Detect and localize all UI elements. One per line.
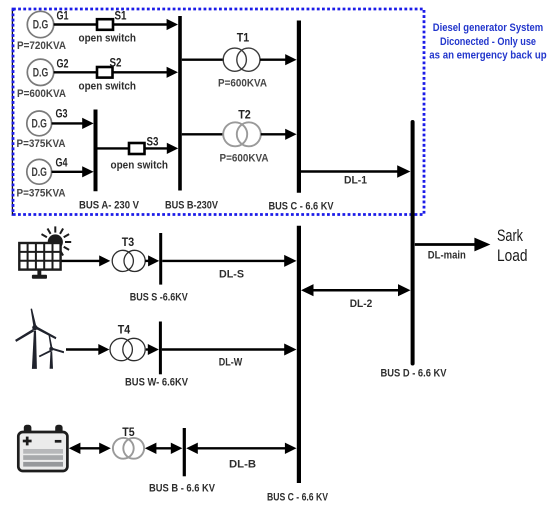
svg-text:D.G: D.G (31, 167, 47, 179)
svg-text:S1: S1 (115, 11, 128, 23)
transformer T1 (223, 48, 246, 71)
svg-text:D.G: D.G (31, 119, 47, 131)
arrowhead DL-main (474, 238, 490, 252)
svg-text:Sark: Sark (497, 226, 523, 245)
svg-text:DL-B: DL-B (229, 459, 256, 471)
arrowhead toward T5 (145, 443, 157, 454)
svg-text:BUS B-230V: BUS B-230V (165, 200, 219, 212)
arrowhead DL-B left (186, 443, 198, 454)
svg-text:P=600KVA: P=600KVA (218, 78, 267, 90)
svg-text:DL-2: DL-2 (350, 298, 373, 310)
bus BUS B (6.6 KV) (183, 428, 186, 476)
wire T1 to BUS C (260, 59, 286, 61)
svg-text:G2: G2 (57, 58, 69, 70)
left black border of diesel enclosure (11, 9, 13, 215)
transformer T2 (223, 122, 247, 146)
battery storage icon (18, 425, 67, 471)
wire S1 to BUS B (113, 23, 168, 25)
arrowhead into BUS C (DL-W) (284, 344, 296, 356)
arrowhead into T4 (98, 344, 109, 355)
arrowhead into BUS A (G3 feed) (82, 118, 93, 129)
generator G1 (27, 11, 53, 37)
arrowhead into BUS W (148, 344, 159, 355)
arrowhead toward T5 (99, 443, 111, 454)
transformer T3 (112, 250, 133, 271)
generator G4 (27, 159, 52, 184)
bus BUS A (94, 110, 98, 192)
generator G3 (27, 111, 52, 136)
solar PV source icon (42, 226, 72, 257)
arrowhead into BUS C (T2 feed) (285, 129, 296, 140)
switch S1 (97, 19, 113, 30)
svg-text:S3: S3 (147, 137, 159, 149)
switch S3 (129, 143, 145, 154)
svg-text:S2: S2 (110, 58, 122, 70)
svg-text:G3: G3 (56, 109, 68, 121)
wire G1 to switch S1 (54, 23, 98, 25)
arrowhead into BUS B (G1 feed) (167, 19, 178, 30)
arrowhead into BUS D (DL-1) (397, 165, 410, 178)
wire BUS B to transformer T2 (182, 133, 224, 135)
wire S2 to BUS B (113, 71, 168, 73)
svg-text:BUS C - 6.6 KV: BUS C - 6.6 KV (267, 492, 329, 504)
wire DL-main BUS D to Sark Load (415, 243, 476, 246)
svg-text:P=375KVA: P=375KVA (17, 138, 66, 150)
svg-text:open switch: open switch (111, 160, 169, 172)
wire T2 to BUS C (261, 133, 286, 135)
arrowhead into BUS S (148, 255, 159, 266)
svg-text:D.G: D.G (33, 20, 49, 32)
bus BUS C (6.6 KV) upper segment (297, 21, 301, 193)
bus BUS B (230V) (178, 16, 182, 191)
wire solar to T3 (62, 260, 101, 262)
svg-text:Diesel generator System: Diesel generator System (433, 22, 543, 34)
svg-text:Diconected - Only use: Diconected - Only use (440, 36, 536, 48)
svg-text:P=375KVA: P=375KVA (17, 188, 66, 200)
wire T5 to BUS B 6.6KV (double arrow) (153, 447, 175, 449)
svg-text:open switch: open switch (79, 81, 137, 93)
bus BUS D (6.6 KV) (411, 122, 415, 364)
arrowhead into BUS A (G4 feed) (82, 166, 93, 177)
blue dashed enclosure box (diesel generator system) (13, 9, 424, 215)
transformer T4 (110, 338, 132, 360)
svg-text:BUS A- 230 V: BUS A- 230 V (79, 200, 140, 212)
bus BUS C (6.6 KV) lower segment (297, 226, 301, 483)
wire G4 to BUS A (52, 171, 83, 173)
svg-text:T4: T4 (118, 325, 131, 337)
switch S2 (97, 67, 113, 78)
wire BUS B to transformer T1 (182, 59, 224, 61)
svg-text:as an emergency back up: as an emergency back up (429, 50, 546, 62)
wire T3 to BUS S (145, 260, 149, 262)
bus BUS W (159, 322, 162, 375)
svg-text:BUS S -6.6KV: BUS S -6.6KV (130, 292, 189, 304)
wire DL-W BUS W to BUS C (162, 348, 286, 350)
svg-text:DL-1: DL-1 (344, 175, 367, 187)
transformer T5 (113, 438, 134, 459)
bus BUS S (159, 233, 162, 285)
svg-text:G4: G4 (56, 158, 68, 170)
arrowhead toward battery (69, 443, 81, 454)
svg-text:BUS D - 6.6 KV: BUS D - 6.6 KV (381, 368, 448, 380)
svg-text:DL-S: DL-S (219, 269, 244, 281)
wire T4 to BUS W (146, 348, 149, 350)
wire DL-S BUS S to BUS C (162, 260, 285, 262)
svg-text:P=600KVA: P=600KVA (17, 88, 66, 100)
svg-text:P=600KVA: P=600KVA (220, 153, 269, 165)
svg-text:BUS W- 6.6KV: BUS W- 6.6KV (125, 377, 189, 389)
wire DL-2 between BUS C and BUS D (double arrow) (310, 289, 401, 292)
svg-text:T2: T2 (238, 110, 251, 122)
svg-text:P=720KVA: P=720KVA (17, 40, 66, 52)
wire wind to T4 (66, 348, 99, 350)
svg-text:DL-W: DL-W (219, 357, 243, 369)
arrowhead into BUS C (T1 feed) (285, 54, 296, 65)
svg-text:T3: T3 (122, 237, 134, 249)
wire G3 to BUS A (52, 122, 83, 124)
arrowhead into BUS B 6.6KV (171, 443, 183, 454)
wind turbine source icon (15, 309, 64, 369)
arrowhead DL-B right (into BUS C) (285, 443, 297, 454)
wire DL-B BUS B to BUS C (double arrow) (195, 447, 289, 449)
generator G2 (27, 59, 53, 85)
svg-text:D.G: D.G (33, 67, 49, 79)
svg-text:Load: Load (497, 246, 528, 265)
wire S3 to BUS B (145, 147, 168, 149)
svg-text:BUS C - 6.6 KV: BUS C - 6.6 KV (269, 201, 335, 213)
arrowhead into BUS C (DL-S) (284, 255, 296, 267)
wire battery to T5 (double arrow) (77, 447, 102, 449)
arrowhead DL-2 left (into BUS C) (301, 284, 314, 296)
arrowhead into BUS B (G2 feed) (167, 67, 178, 78)
arrowhead into BUS B (S3 feed) (167, 143, 178, 154)
wire G2 to switch S2 (54, 71, 98, 73)
svg-text:BUS B - 6.6 KV: BUS B - 6.6 KV (149, 483, 216, 495)
svg-text:T5: T5 (122, 427, 135, 439)
svg-text:open switch: open switch (79, 33, 137, 45)
arrowhead DL-2 right (into BUS D) (398, 284, 411, 296)
arrowhead into T3 (99, 255, 110, 266)
wire DL-1 BUS C to BUS D (301, 170, 399, 173)
wire BUS A to switch S3 (98, 147, 131, 149)
svg-text:DL-main: DL-main (428, 250, 466, 262)
svg-text:T1: T1 (237, 33, 250, 45)
svg-text:G1: G1 (57, 11, 69, 23)
